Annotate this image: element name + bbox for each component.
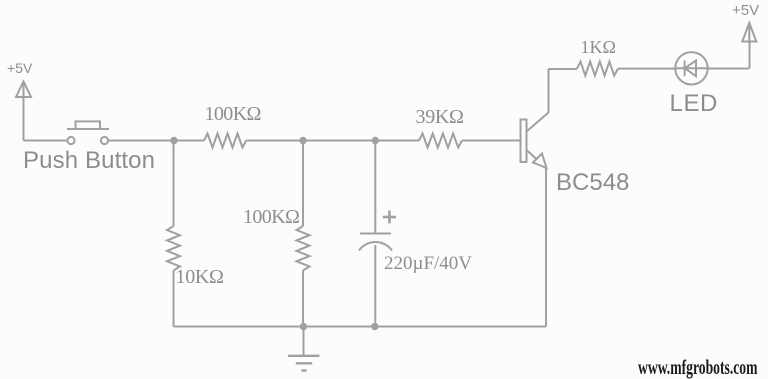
svg-text:www.mfgrobots.com: www.mfgrobots.com [638, 355, 758, 379]
